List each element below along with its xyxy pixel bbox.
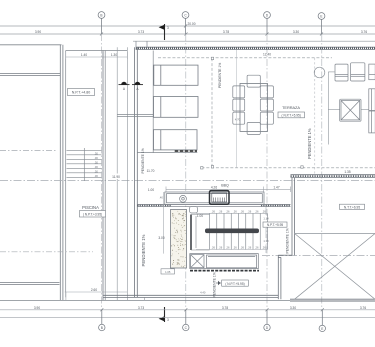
terraza right chair 1 xyxy=(369,89,375,111)
pool east wall xyxy=(102,51,104,301)
bbq dim line 4.26 / 1.47 xyxy=(166,187,291,193)
lower counter X square xyxy=(191,255,204,268)
grid bubble B top xyxy=(98,12,105,34)
svg-text:PENDIENTE 1%: PENDIENTE 1% xyxy=(213,272,217,297)
svg-text:.30: .30 xyxy=(94,156,98,160)
svg-text:.40: .40 xyxy=(159,196,163,200)
svg-text:E: E xyxy=(321,327,323,331)
grid bubble B bottom xyxy=(99,310,105,331)
svg-text:.26: .26 xyxy=(248,209,252,213)
bbq north wall (hatched) xyxy=(137,204,290,206)
bottom dimension ticks xyxy=(100,308,323,311)
svg-text:1.35: 1.35 xyxy=(344,170,350,174)
svg-text:1.30: 1.30 xyxy=(263,239,269,243)
pool bottom dim 2.60 xyxy=(65,292,128,300)
dark threshold dash xyxy=(175,150,197,152)
terraza right chair 2 xyxy=(369,111,375,133)
NPT label right xyxy=(263,222,287,227)
svg-text:.26: .26 xyxy=(226,209,230,213)
svg-text:1.05: 1.05 xyxy=(165,270,171,274)
dining chair top xyxy=(247,75,260,87)
grid bubble E bottom xyxy=(319,310,325,332)
svg-text:20.00: 20.00 xyxy=(188,22,196,26)
grid line B xyxy=(101,34,103,310)
short verticals below south wall xyxy=(144,297,146,300)
site boundary bottom xyxy=(0,299,290,301)
small level label left xyxy=(161,269,175,274)
svg-text:3.78: 3.78 xyxy=(223,30,229,34)
svg-text:.30: .30 xyxy=(94,174,98,178)
building top wall (hatched) xyxy=(136,47,375,49)
svg-text:3.00: 3.00 xyxy=(158,236,164,240)
top dimension line (overall 20.00) xyxy=(0,25,375,27)
svg-text:3: 3 xyxy=(167,26,169,30)
terraza rug corner xyxy=(328,72,369,145)
upper deck edge double xyxy=(117,113,153,115)
svg-text:BBQ: BBQ xyxy=(221,184,229,188)
pool steps xyxy=(67,148,102,181)
svg-text:1.30: 1.30 xyxy=(111,53,117,57)
svg-text:.26: .26 xyxy=(226,245,230,249)
TERRAZA npt label xyxy=(278,112,305,118)
svg-text:PISCINA: PISCINA xyxy=(82,205,99,210)
sunbed 3 xyxy=(154,130,198,150)
svg-text:.26: .26 xyxy=(219,209,223,213)
svg-text:3.73: 3.73 xyxy=(138,306,144,310)
roof projection dashed vertical xyxy=(211,58,213,166)
roof X rectangle xyxy=(295,234,375,300)
svg-text:11.90: 11.90 xyxy=(112,175,120,179)
svg-text:N.P.T.+5.95: N.P.T.+5.95 xyxy=(267,223,284,227)
grid line C xyxy=(185,34,187,310)
column circle xyxy=(314,67,325,78)
side strip line 2 xyxy=(126,47,128,300)
svg-text:4.26: 4.26 xyxy=(211,186,217,190)
NTT roof label xyxy=(340,204,365,209)
dim 11.90 xyxy=(110,174,123,180)
projection corner squares xyxy=(201,57,304,169)
svg-text:3.30: 3.30 xyxy=(293,30,299,34)
counter top band xyxy=(165,192,264,204)
N.P.T.+4.80 label xyxy=(68,89,95,96)
section cut flag top xyxy=(159,24,169,40)
building top-left corner xyxy=(135,41,137,50)
svg-text:B: B xyxy=(100,13,102,17)
parapet outer line top xyxy=(133,40,375,42)
grill xyxy=(210,191,230,205)
grid bubble C bottom xyxy=(183,310,189,331)
centerline 4 right xyxy=(262,255,375,257)
deck lower edge xyxy=(137,152,197,154)
svg-text:3.90: 3.90 xyxy=(34,306,40,310)
threshold dark dash bottom xyxy=(190,270,259,272)
grid line E xyxy=(321,34,323,310)
slat dim labels .26 top xyxy=(211,209,266,213)
roof projection dashed right vertical xyxy=(314,58,316,175)
dim 11.70 xyxy=(145,168,156,173)
svg-text:.26: .26 xyxy=(233,245,237,249)
sink small xyxy=(190,207,198,214)
roof projection dashed top xyxy=(158,57,332,59)
grid bubble E top xyxy=(318,13,325,34)
svg-text:B: B xyxy=(101,326,103,330)
svg-text:1.00: 1.00 xyxy=(197,214,203,218)
pool top edge xyxy=(66,50,128,52)
dining chair bottom xyxy=(247,123,260,135)
svg-text:4.40: 4.40 xyxy=(200,290,206,294)
bottom second line xyxy=(0,317,375,319)
svg-text:.26: .26 xyxy=(255,209,259,213)
svg-text:.26: .26 xyxy=(240,209,244,213)
bbq inner frame xyxy=(191,215,210,251)
granite counter strip xyxy=(171,210,187,269)
bench dark left post xyxy=(190,215,192,251)
section A marker 2 xyxy=(132,82,143,91)
svg-text:N.P.T.+4.80: N.P.T.+4.80 xyxy=(72,91,90,95)
svg-text:.26: .26 xyxy=(262,245,266,249)
side strip line 1 xyxy=(116,47,118,300)
top dimension chain line xyxy=(0,33,375,35)
slat dim labels .26 bottom xyxy=(211,245,266,249)
bottom dimension chain line xyxy=(0,309,375,311)
paving joint line xyxy=(235,49,237,167)
slat verticals xyxy=(210,214,268,250)
grid bubble C top xyxy=(182,12,189,34)
NPT label bottom center xyxy=(216,280,248,286)
svg-text:.26: .26 xyxy=(262,209,266,213)
svg-text:3.73: 3.73 xyxy=(138,30,144,34)
svg-text:.26: .26 xyxy=(248,245,252,249)
svg-text:1.14: 1.14 xyxy=(263,217,269,221)
building west wall xyxy=(134,47,136,297)
slat dim row top xyxy=(196,212,268,214)
svg-text:4.70: 4.70 xyxy=(235,118,241,122)
pool dim line 1.40 / 1.30 xyxy=(66,52,128,59)
svg-text:.26: .26 xyxy=(255,245,259,249)
dining chairs left xyxy=(233,86,245,124)
svg-text:3: 3 xyxy=(167,318,169,322)
svg-text:.30: .30 xyxy=(94,165,98,169)
svg-text:3.76: 3.76 xyxy=(360,306,366,310)
centerline 1 xyxy=(0,150,57,152)
svg-text:.30: .30 xyxy=(94,160,98,164)
grid bubble D top xyxy=(264,12,271,34)
step tread labels .30 xyxy=(94,151,98,178)
svg-text:PENDIENTE 1%: PENDIENTE 1% xyxy=(218,63,222,88)
svg-text:PENDIENTE 1%: PENDIENTE 1% xyxy=(141,148,145,173)
N.P.T.+3.95 label xyxy=(80,211,106,218)
east wall lower segment xyxy=(277,255,279,299)
svg-text:PENDIENTE 1%: PENDIENTE 1% xyxy=(286,228,290,253)
site boundary bottom right double xyxy=(290,298,375,300)
lower counter long top xyxy=(207,255,257,268)
svg-text:1.47: 1.47 xyxy=(273,186,279,190)
svg-text:12.40: 12.40 xyxy=(263,53,271,57)
svg-text:11.70: 11.70 xyxy=(147,169,155,173)
lower counter outer xyxy=(190,254,258,269)
svg-text:3.90: 3.90 xyxy=(35,30,41,34)
terraza chair 3 xyxy=(369,64,375,80)
svg-text:( N.P.T.+5.95): ( N.P.T.+5.95) xyxy=(282,113,301,117)
pool west wall xyxy=(59,45,61,300)
coffee table X xyxy=(340,99,361,121)
svg-text:2.60: 2.60 xyxy=(91,288,97,292)
svg-text:E: E xyxy=(320,14,322,18)
svg-text:.26: .26 xyxy=(211,245,215,249)
top dimension ticks xyxy=(100,25,323,36)
centerline 2 xyxy=(0,180,375,182)
grid line D xyxy=(266,34,268,310)
vertical dim chain right xyxy=(265,207,267,253)
terraza chair 1 xyxy=(335,64,348,81)
svg-text:.30: .30 xyxy=(94,151,98,155)
slat dim row bottom xyxy=(196,249,268,251)
terraza chair 2 xyxy=(351,63,365,81)
grid bubble D bottom xyxy=(264,310,270,331)
section A marker 1 xyxy=(119,82,130,91)
svg-text:3.78: 3.78 xyxy=(222,306,228,310)
svg-text:1.40: 1.40 xyxy=(81,53,87,57)
dining table xyxy=(240,84,268,132)
terraza south wall (hatched) xyxy=(291,175,375,178)
vertical dim chain left xyxy=(162,192,164,254)
section cut flag bottom xyxy=(159,307,169,322)
svg-text:3.30: 3.30 xyxy=(290,306,296,310)
svg-text:.26: .26 xyxy=(233,209,237,213)
svg-text:.26: .26 xyxy=(219,245,223,249)
svg-text:3.76: 3.76 xyxy=(361,30,367,34)
sunbed 2 xyxy=(154,97,199,118)
svg-text:PENDIENTE 1%: PENDIENTE 1% xyxy=(141,234,146,266)
burner circle xyxy=(180,195,187,202)
east wall step xyxy=(278,254,292,256)
centerline 3 xyxy=(0,251,93,253)
deck top edge line xyxy=(0,44,62,46)
deck upper wall double line xyxy=(0,73,60,75)
svg-text:PENDIENTE 1%: PENDIENTE 1% xyxy=(307,128,312,159)
svg-text:.26: .26 xyxy=(240,245,244,249)
sunbed 1 xyxy=(154,65,198,85)
building south wall xyxy=(103,294,278,296)
bench dark band xyxy=(205,229,259,234)
roof projection dashed mid xyxy=(202,167,375,169)
svg-text:.30: .30 xyxy=(94,169,98,173)
svg-text:N.T.T.+6.95: N.T.T.+6.95 xyxy=(344,205,360,209)
svg-text:TERRAZA: TERRAZA xyxy=(282,105,300,110)
svg-text:( N.P.T.+3.95): ( N.P.T.+3.95) xyxy=(83,212,102,216)
dining chairs right xyxy=(260,86,273,124)
east wall upper segment xyxy=(291,178,293,256)
deck lower wall double line xyxy=(0,282,60,284)
deck strip east line xyxy=(152,51,154,153)
svg-text:.26: .26 xyxy=(211,209,215,213)
svg-text:1.00: 1.00 xyxy=(148,188,154,192)
svg-text:( N.P.T.+5.95): ( N.P.T.+5.95) xyxy=(225,282,244,286)
